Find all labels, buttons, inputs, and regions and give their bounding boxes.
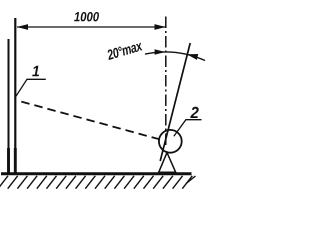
mast outer line (left), item 1 pole bbox=[8, 39, 10, 173]
support triangle bbox=[159, 153, 176, 173]
angle text 20 deg max bbox=[106, 40, 143, 60]
dimension arrowhead right bbox=[155, 24, 166, 30]
leader line for label 1 bbox=[16, 79, 46, 96]
label 2 bbox=[190, 107, 198, 118]
dimension line 1000 bbox=[17, 26, 166, 28]
dashed antenna wire bbox=[17, 100, 160, 139]
label 1 bbox=[32, 66, 39, 77]
pulley circle (item 2) bbox=[159, 130, 182, 153]
mast base thickened right bbox=[14, 148, 17, 173]
leader line for label 2 bbox=[174, 120, 202, 137]
angle arc arrowhead at tilted line bbox=[187, 54, 198, 60]
ground hatching bbox=[0, 176, 196, 189]
tilted mast position line bbox=[160, 43, 190, 161]
ground line bbox=[1, 172, 192, 175]
angle arc arrowhead at centre line bbox=[155, 49, 166, 55]
mast inner line (right), item 1 pole bbox=[14, 18, 16, 173]
dimension arrowhead left bbox=[17, 24, 28, 30]
centre line (dash-dot) bbox=[165, 17, 167, 147]
dimension text 1000 bbox=[74, 12, 99, 21]
mast base thickened left bbox=[7, 148, 10, 173]
angle arc 20 deg bbox=[145, 52, 205, 60]
